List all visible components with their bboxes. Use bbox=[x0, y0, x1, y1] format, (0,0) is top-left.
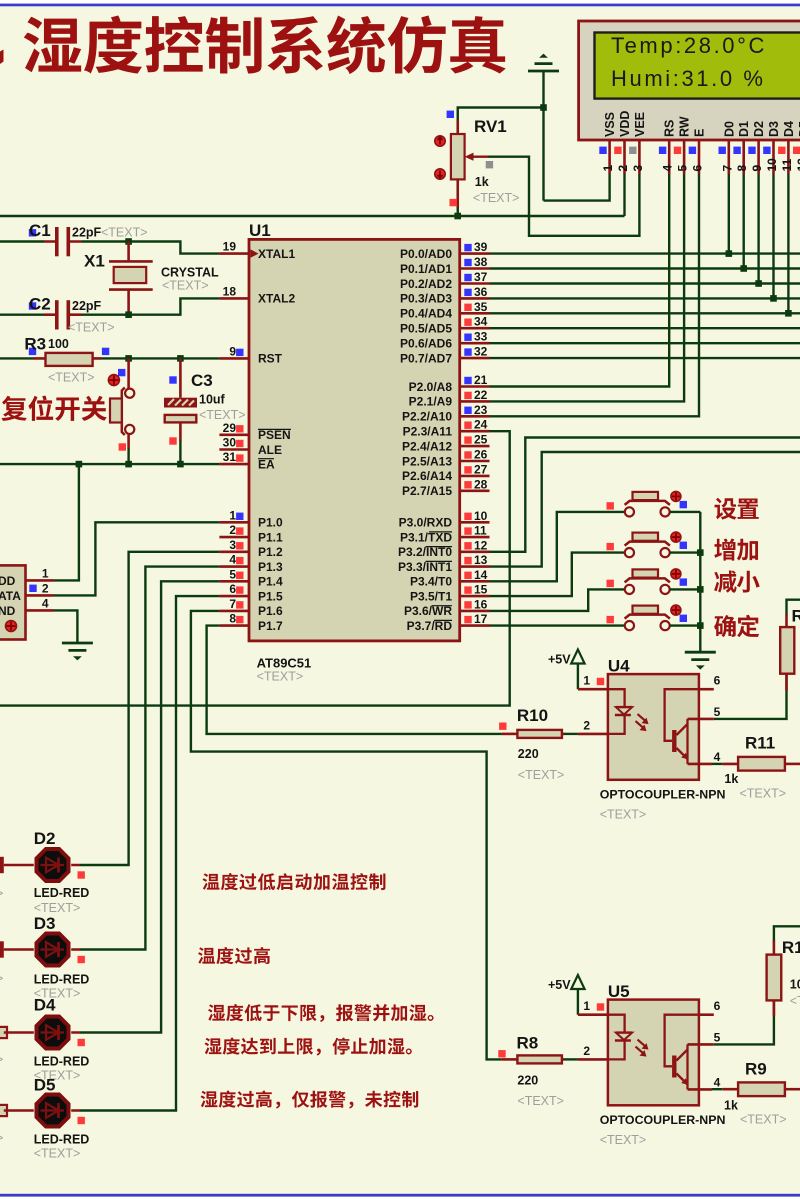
opto U4 pin numbers bbox=[583, 674, 720, 764]
node DHT VDD junction bbox=[76, 461, 83, 468]
value C2 22pF bbox=[72, 299, 102, 313]
U1 pin label XTAL1 bbox=[258, 247, 295, 261]
svg-text:LED-RED: LED-RED bbox=[34, 973, 90, 987]
svg-text:LED-RED: LED-RED bbox=[34, 886, 90, 900]
U4 pin1 state square bbox=[597, 678, 604, 685]
U1 pin 23 state square bbox=[464, 407, 471, 414]
U1 pin 5 number bbox=[229, 567, 236, 581]
value R12 10k bbox=[790, 978, 800, 992]
node rail junction b2 bbox=[697, 549, 704, 556]
svg-text:8: 8 bbox=[735, 165, 749, 172]
led D5 bbox=[0, 1095, 80, 1127]
U1 pin 28 state square bbox=[464, 481, 471, 488]
U1 P3.6/WR overline bbox=[432, 605, 453, 607]
U1 pin 28 number bbox=[474, 477, 488, 491]
LCD pin label D2 bbox=[752, 121, 766, 137]
svg-text:<TEXT>: <TEXT> bbox=[34, 1147, 81, 1161]
svg-text:RV1: RV1 bbox=[474, 117, 507, 136]
svg-text:33: 33 bbox=[474, 330, 488, 344]
svg-text:220: 220 bbox=[517, 1074, 538, 1088]
U1 pin 7 P1.6 stub bbox=[219, 610, 249, 613]
button 3 knob bbox=[671, 569, 681, 579]
U1 pin 26 state square bbox=[464, 451, 471, 458]
sensor DHT11 pin labels bbox=[0, 574, 21, 618]
svg-text:LED-RED: LED-RED bbox=[34, 1133, 90, 1147]
label OPTOCOUPLER-NPN U4 bbox=[600, 788, 726, 802]
button 4 bar bbox=[625, 615, 670, 619]
U1 P3.3/INT1 overline bbox=[426, 560, 453, 562]
svg-text:P3.4/T0: P3.4/T0 bbox=[410, 575, 452, 589]
svg-text:EA: EA bbox=[258, 457, 275, 471]
svg-text:<TEXT>: <TEXT> bbox=[68, 321, 115, 335]
svg-text:13: 13 bbox=[474, 553, 488, 567]
U1 pin 30 state square bbox=[236, 440, 243, 447]
svg-text:P1.7: P1.7 bbox=[258, 619, 283, 633]
U1 pin label P0.4/AD4 bbox=[400, 307, 452, 321]
U1 pin 10 state square bbox=[464, 513, 471, 520]
svg-text:ATA: ATA bbox=[0, 589, 21, 603]
svg-text:2: 2 bbox=[616, 165, 630, 172]
U1 EA overline bbox=[258, 458, 274, 460]
svg-text:22: 22 bbox=[474, 388, 488, 402]
U1 pin 11 state square bbox=[464, 527, 471, 534]
R3 <TEXT> bbox=[48, 371, 95, 385]
sensor pin numbers bbox=[42, 566, 49, 610]
wire P1.7 to R10 bbox=[207, 626, 502, 734]
label D5 LED-RED bbox=[34, 1133, 90, 1147]
capacitor C1 bbox=[44, 227, 82, 256]
U1 pin 27 P2.6/A14 stub bbox=[460, 475, 490, 478]
note line1 bbox=[203, 873, 386, 890]
ground stem bbox=[542, 71, 544, 201]
U1 pin label P1.4 bbox=[258, 575, 283, 589]
U1 XTAL1 arrow bbox=[251, 249, 259, 257]
button 2 state square blue bbox=[680, 542, 687, 549]
U1 pin 39 P0.0/AD0 stub bbox=[460, 252, 490, 255]
svg-text:<TEXT>: <TEXT> bbox=[162, 279, 209, 293]
ground G3 symbol bbox=[685, 652, 716, 669]
U1 pin 31 EA stub bbox=[219, 463, 249, 466]
LCD pin 1 state square bbox=[599, 147, 606, 154]
svg-text:P2.6/A14: P2.6/A14 bbox=[402, 469, 452, 483]
C3 state square red bbox=[169, 437, 176, 444]
D2 <TEXT> bbox=[34, 901, 81, 915]
svg-text:11: 11 bbox=[474, 524, 487, 538]
svg-text:P0.1/AD1: P0.1/AD1 bbox=[400, 262, 452, 276]
label 复位开关 bbox=[2, 396, 107, 421]
button 1 bar bbox=[625, 501, 670, 505]
svg-text:P1.2: P1.2 bbox=[258, 545, 283, 559]
svg-text:<TEXT>: <TEXT> bbox=[48, 371, 95, 385]
X1 <TEXT> bbox=[162, 279, 209, 293]
U1 pin 16 state square bbox=[464, 601, 471, 608]
wire LCD RW to P2.1 bbox=[490, 174, 685, 401]
U1 pin label P1.3 bbox=[258, 560, 283, 574]
U1 pin 27 state square bbox=[464, 466, 471, 473]
U1 pin 5 P1.4 stub bbox=[219, 580, 249, 583]
wire LCD D3 to P0.3 bbox=[772, 174, 774, 298]
node X1 bottom junction bbox=[125, 311, 132, 318]
svg-text:4: 4 bbox=[42, 596, 49, 610]
U1 pin 22 P2.1/A9 stub bbox=[460, 400, 490, 403]
potentiometer RV1 wiper arrow bbox=[465, 153, 488, 161]
U1 pin 19 XTAL1 stub bbox=[219, 252, 249, 255]
wire LCD D4 to P0.4 bbox=[787, 174, 789, 313]
wire R12 top to edge bbox=[774, 926, 800, 940]
resistor R9 bbox=[712, 1082, 800, 1096]
U1 P3.1/TXD overline bbox=[429, 531, 452, 533]
svg-text:28: 28 bbox=[474, 477, 488, 491]
node D1 junction bbox=[740, 265, 747, 272]
wire P0.0 row bbox=[490, 252, 800, 254]
button 1 knob bbox=[671, 491, 681, 501]
LCD pin 1 number bbox=[601, 165, 615, 172]
LCD pin label D5 bbox=[797, 121, 800, 137]
svg-text:RST: RST bbox=[258, 352, 283, 366]
svg-text:P3.0/RXD: P3.0/RXD bbox=[399, 516, 453, 530]
button 4 state square blue bbox=[680, 615, 687, 622]
svg-text:R10: R10 bbox=[517, 706, 548, 725]
svg-text:R1: R1 bbox=[782, 938, 800, 957]
svg-text:30: 30 bbox=[223, 436, 237, 450]
U1 pin 28 P2.7/A15 stub bbox=[460, 489, 490, 492]
svg-text:P0.6/AD6: P0.6/AD6 bbox=[400, 337, 452, 351]
U5 pin1 state square bbox=[597, 1003, 604, 1010]
wire P3.6 to button3 bbox=[490, 589, 625, 611]
LCD pin 7 stub bbox=[727, 140, 730, 174]
button 4 cap bbox=[633, 606, 659, 614]
label button 增加 bbox=[714, 539, 758, 561]
U1 pin 12 state square bbox=[464, 542, 471, 549]
button 3 bar bbox=[625, 578, 670, 582]
wire U4 pin5 to resistor bbox=[714, 674, 787, 719]
opto U4 pin2 stub bbox=[563, 733, 608, 735]
D3 <TEXT> bbox=[34, 987, 81, 1001]
U1 pin 34 P0.5/AD5 stub bbox=[460, 327, 490, 330]
LCD pin 5 number bbox=[676, 165, 690, 172]
label CRYSTAL bbox=[161, 266, 219, 280]
C2 state square blue bbox=[29, 302, 36, 309]
opto U5 internal led and transistor bbox=[608, 1015, 699, 1090]
capacitor C3 plus plate bbox=[164, 398, 197, 408]
wire LCD pin2 VDD drop bbox=[623, 174, 625, 216]
U1 pin 10 P3.0/RXD stub bbox=[460, 521, 490, 524]
wire C3 to EA bus bbox=[179, 441, 181, 465]
sensor pin2 stub bbox=[26, 594, 55, 597]
svg-text:7: 7 bbox=[720, 165, 734, 172]
U1 pin label P2.6/A14 bbox=[402, 469, 452, 483]
U1 pin label P1.7 bbox=[258, 619, 283, 633]
svg-text:P2.0/A8: P2.0/A8 bbox=[409, 380, 453, 394]
wire button 4 to rail bbox=[670, 624, 701, 626]
wire C2 to XTAL2 bbox=[82, 298, 220, 314]
LCD pin label RW bbox=[678, 116, 692, 137]
svg-text:<TEXT>: <TEXT> bbox=[473, 191, 520, 205]
svg-text:AT89C51: AT89C51 bbox=[257, 656, 312, 671]
svg-text:P1.6: P1.6 bbox=[258, 604, 283, 618]
svg-text:D5: D5 bbox=[34, 1076, 56, 1095]
C3 <TEXT> bbox=[199, 408, 246, 422]
wire DHT VDD to EA bus bbox=[54, 464, 79, 580]
wire C2 left bbox=[0, 314, 44, 316]
svg-text:P1.5: P1.5 bbox=[258, 589, 283, 603]
svg-text:VEE: VEE bbox=[633, 112, 647, 137]
U1 pin 15 P3.5/T1 stub bbox=[460, 595, 490, 598]
led D2 bbox=[0, 849, 80, 881]
svg-text:U5: U5 bbox=[608, 982, 630, 1001]
U1 pin 23 number bbox=[474, 403, 488, 417]
U1 pin label P2.1/A9 bbox=[409, 395, 453, 409]
LCD pin 12 number bbox=[795, 158, 800, 172]
svg-text:ALE: ALE bbox=[258, 443, 282, 457]
U1 pin label P2.7/A15 bbox=[402, 484, 452, 498]
U1 pin 4 state square bbox=[236, 557, 243, 564]
wire P0.4 row bbox=[490, 312, 800, 314]
U1 pin 2 number bbox=[229, 523, 236, 537]
U1 pin 6 state square bbox=[236, 586, 243, 593]
opto U5 pin4 stub bbox=[688, 1088, 713, 1091]
U1 pin 29 number bbox=[223, 421, 237, 435]
node D3 junction bbox=[770, 295, 777, 302]
wire button 2 to rail bbox=[670, 551, 701, 553]
opto U5 pin6 stub bbox=[699, 1013, 714, 1016]
wire LCD D2 to P0.2 bbox=[757, 174, 759, 284]
opto U4 pin4 stub bbox=[688, 763, 713, 766]
svg-text:1: 1 bbox=[42, 566, 49, 580]
U1 pin 38 number bbox=[474, 255, 488, 269]
U1 pin label P0.0/AD0 bbox=[400, 247, 452, 261]
switch reset knob bbox=[108, 375, 119, 386]
U1 pin 7 number bbox=[229, 597, 236, 611]
svg-text:P0.0/AD0: P0.0/AD0 bbox=[400, 247, 452, 261]
svg-text:R8: R8 bbox=[517, 1034, 539, 1053]
LCD pin 2 stub bbox=[623, 140, 626, 174]
label +5V U4 bbox=[548, 652, 571, 666]
svg-text:14: 14 bbox=[474, 568, 488, 582]
svg-text:5: 5 bbox=[229, 567, 236, 581]
R3 state square blue left bbox=[29, 348, 36, 355]
LCD pin 8 state square bbox=[733, 147, 740, 154]
svg-text:<TEXT>: <TEXT> bbox=[34, 901, 81, 915]
U1 pin 33 state square bbox=[464, 334, 471, 341]
U1 pin 32 P0.7/AD7 stub bbox=[460, 357, 490, 360]
svg-text:D4: D4 bbox=[782, 121, 796, 137]
svg-text:38: 38 bbox=[474, 255, 488, 269]
wire C1 to XTAL1 bbox=[82, 242, 220, 254]
U1 pin 8 number bbox=[229, 612, 236, 626]
U1 pin 26 P2.5/A13 stub bbox=[460, 460, 490, 463]
LCD pin label E bbox=[693, 129, 707, 137]
label U4 bbox=[608, 657, 630, 676]
svg-text:<TEXT>: <TEXT> bbox=[600, 808, 647, 822]
U1 pin 9 RST stub bbox=[219, 357, 249, 360]
svg-text:25: 25 bbox=[474, 433, 488, 447]
U1 pin 35 state square bbox=[464, 304, 471, 311]
D3 state square red bbox=[78, 956, 85, 963]
button 3 state square red bbox=[607, 580, 614, 587]
svg-text:P0.4/AD4: P0.4/AD4 bbox=[400, 307, 452, 321]
opto U4 +5V arrow bbox=[571, 650, 584, 690]
U1 pin 6 number bbox=[229, 582, 236, 596]
wire P3.4 to button1 bbox=[490, 512, 625, 581]
button 2 contacts bbox=[625, 548, 670, 557]
LCD pin label D1 bbox=[737, 121, 751, 137]
node rail junction b3 bbox=[697, 586, 704, 593]
wire button 3 to rail bbox=[670, 588, 701, 590]
U1 pin label P2.4/A12 bbox=[402, 439, 452, 453]
wire P0.2 row bbox=[490, 282, 800, 284]
U1 pin 30 number bbox=[223, 436, 237, 450]
U1 pin 18 number bbox=[223, 284, 237, 298]
U1 pin 24 number bbox=[474, 418, 488, 432]
U1 pin 26 number bbox=[474, 448, 488, 462]
opto U5 pin numbers bbox=[583, 999, 720, 1089]
node D2 junction bbox=[755, 280, 762, 287]
U1 pin 36 number bbox=[474, 285, 488, 299]
U1 pin 13 P3.3/INT1 stub bbox=[460, 565, 490, 568]
U1 pin 11 P3.1/TXD stub bbox=[460, 536, 490, 539]
svg-text:5: 5 bbox=[714, 705, 721, 719]
svg-text:1k: 1k bbox=[724, 1099, 738, 1113]
U1 pin 38 state square bbox=[464, 259, 471, 266]
svg-text:3: 3 bbox=[229, 538, 236, 552]
svg-text:<TEXT>: <TEXT> bbox=[517, 1094, 564, 1108]
wire LCD VEE to RV1 wiper bbox=[488, 157, 639, 236]
value R10 220 bbox=[518, 747, 539, 761]
svg-text:10uf: 10uf bbox=[199, 393, 226, 407]
svg-text:E: E bbox=[693, 129, 707, 137]
svg-text:21: 21 bbox=[474, 373, 488, 387]
svg-text:D3: D3 bbox=[767, 121, 781, 137]
U1 pin label P3.3/INT1 bbox=[398, 560, 452, 574]
R10 state square red bbox=[499, 723, 506, 730]
U1 pin 23 P2.2/A10 stub bbox=[460, 415, 490, 418]
svg-text:P0.2/AD2: P0.2/AD2 bbox=[400, 277, 452, 291]
LCD pin label VDD bbox=[618, 111, 632, 137]
svg-text:2: 2 bbox=[42, 581, 49, 595]
node D4 junction bbox=[785, 310, 792, 317]
sensor DHT11 knob bbox=[6, 621, 17, 632]
svg-text:1k: 1k bbox=[724, 772, 738, 786]
wire LCD RS to P2.0 bbox=[490, 174, 670, 387]
node ground stem junction bbox=[540, 104, 547, 111]
LCD pin 4 number bbox=[661, 165, 675, 172]
label D2 LED-RED bbox=[34, 886, 90, 900]
LCD pin 3 state square bbox=[629, 147, 636, 154]
label C2 bbox=[29, 295, 51, 314]
LCD pin 7 state square bbox=[719, 147, 726, 154]
button 2 knob bbox=[671, 532, 681, 542]
U1 pin 39 number bbox=[474, 240, 488, 254]
label D5 bbox=[34, 1076, 56, 1095]
D2 state square red bbox=[78, 871, 85, 878]
svg-text:D3: D3 bbox=[34, 914, 56, 933]
wire LCD E to P2.2 bbox=[490, 174, 700, 416]
svg-text:X1: X1 bbox=[84, 252, 105, 271]
button 2 state square red bbox=[607, 543, 614, 550]
wire P3.7 to button4 bbox=[490, 624, 625, 626]
opto U4 internal led and transistor bbox=[608, 689, 699, 764]
U1 pin 4 P1.3 stub bbox=[219, 565, 249, 568]
svg-text:U1: U1 bbox=[249, 221, 271, 240]
U1 pin 33 P0.6/AD6 stub bbox=[460, 342, 490, 345]
U1 pin 14 P3.4/T0 stub bbox=[460, 580, 490, 583]
note line2 bbox=[198, 947, 270, 964]
svg-text:220: 220 bbox=[518, 747, 539, 761]
U1 pin 21 state square bbox=[464, 377, 471, 384]
svg-text:36: 36 bbox=[474, 285, 488, 299]
U1 pin 33 number bbox=[474, 330, 488, 344]
wire switch to EA bus bbox=[127, 448, 129, 464]
U1 pin 36 state square bbox=[464, 289, 471, 296]
potentiometer RV1 body bbox=[451, 134, 465, 179]
R11 <TEXT> bbox=[740, 787, 787, 801]
LCD pin label VSS bbox=[603, 112, 617, 137]
button 1 contacts bbox=[625, 507, 670, 516]
wire P0.5 row bbox=[490, 327, 800, 329]
R9 <TEXT> bbox=[740, 1113, 787, 1127]
title 温、湿度控制系统仿真 bbox=[0, 16, 506, 75]
label D3 LED-RED bbox=[34, 973, 90, 987]
label OPTOCOUPLER-NPN U5 bbox=[600, 1113, 726, 1127]
svg-text:34: 34 bbox=[474, 315, 488, 329]
U1 pin label P2.5/A13 bbox=[402, 454, 452, 468]
U1 pin 31 number bbox=[223, 450, 237, 464]
LCD pin 9 state square bbox=[748, 147, 755, 154]
U1 pin label P1.5 bbox=[258, 589, 283, 603]
svg-text:6: 6 bbox=[714, 674, 721, 688]
U1 pin 35 number bbox=[474, 300, 488, 314]
RV1 state square blue bbox=[447, 111, 454, 118]
wire P3.2/INT0 riser bbox=[490, 438, 800, 552]
U1 pin 4 number bbox=[229, 553, 236, 567]
svg-text:D4: D4 bbox=[34, 996, 56, 1015]
LCD screen bbox=[595, 33, 800, 99]
svg-text:19: 19 bbox=[223, 240, 237, 254]
svg-text:6: 6 bbox=[691, 165, 705, 172]
svg-text:C3: C3 bbox=[191, 371, 213, 390]
button 3 cap bbox=[633, 569, 659, 577]
button 3 state square blue bbox=[680, 578, 687, 585]
opto U4 pin6 stub bbox=[699, 688, 714, 691]
potentiometer RV1 down knob bbox=[435, 169, 445, 179]
LCD pin 10 stub bbox=[772, 140, 775, 174]
LCD pin 12 state square bbox=[793, 147, 800, 154]
U1 pin 29 state square bbox=[236, 425, 243, 432]
label D4 LED-RED bbox=[34, 1055, 90, 1069]
svg-text:XTAL2: XTAL2 bbox=[258, 292, 295, 306]
R3 state square blue right bbox=[102, 348, 109, 355]
wire P1.3 to D3 bbox=[80, 567, 219, 950]
svg-text:4: 4 bbox=[229, 553, 236, 567]
wire P0.3 row bbox=[490, 297, 800, 299]
LCD pin 1 stub bbox=[608, 140, 611, 174]
U1 pin label P3.7/RD bbox=[407, 619, 453, 633]
U1 pin 14 state square bbox=[464, 572, 471, 579]
U1 <TEXT> bbox=[257, 670, 304, 684]
svg-text:XTAL1: XTAL1 bbox=[258, 247, 295, 261]
U1 pin 37 P0.2/AD2 stub bbox=[460, 282, 490, 285]
capacitor C3 minus plate bbox=[165, 415, 197, 423]
svg-text:2: 2 bbox=[229, 523, 236, 537]
svg-text:VSS: VSS bbox=[603, 112, 617, 137]
svg-text:12: 12 bbox=[795, 158, 800, 172]
svg-text:31: 31 bbox=[223, 450, 237, 464]
wire EA bus bbox=[0, 463, 219, 465]
wire LCD VSS to ground bbox=[544, 174, 610, 201]
svg-text:OPTOCOUPLER-NPN: OPTOCOUPLER-NPN bbox=[600, 788, 726, 802]
U1 pin 7 state square bbox=[236, 601, 243, 608]
